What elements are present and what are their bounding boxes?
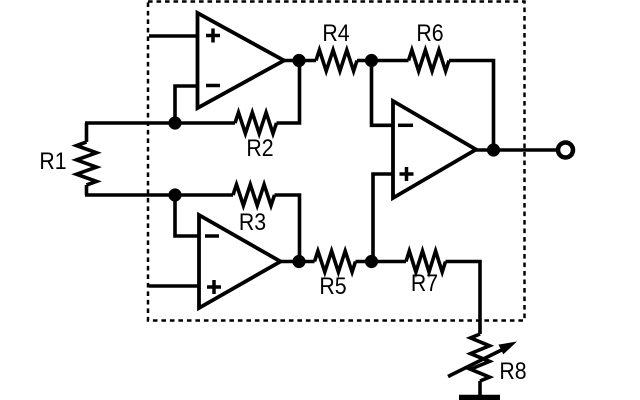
svg-text:R1: R1 <box>39 147 66 175</box>
svg-text:R3: R3 <box>239 208 266 236</box>
svg-text:R4: R4 <box>322 19 349 47</box>
svg-text:R5: R5 <box>319 272 346 300</box>
svg-text:R8: R8 <box>499 357 526 385</box>
svg-text:R2: R2 <box>246 134 273 162</box>
svg-text:R7: R7 <box>411 269 438 297</box>
svg-text:R6: R6 <box>416 19 443 47</box>
